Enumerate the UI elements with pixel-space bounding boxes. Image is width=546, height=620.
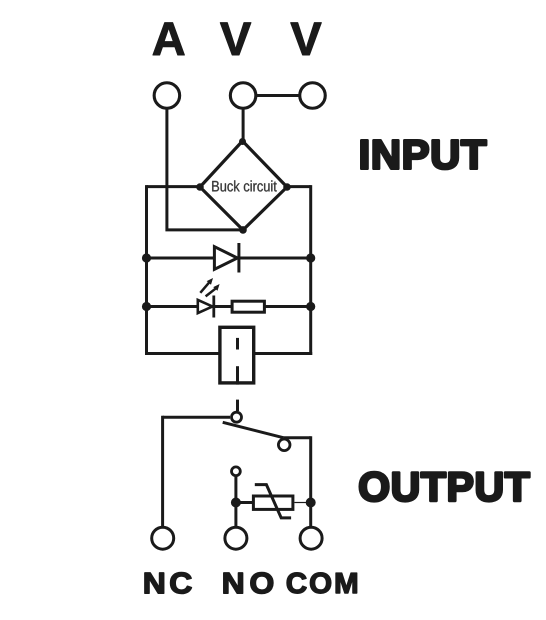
node diode row right [306, 253, 315, 262]
wire right rail vertical [309, 185, 312, 355]
wire blade tip to COM rail [283, 436, 310, 439]
wire coil row left [145, 352, 219, 355]
label A (input terminal A) [153, 23, 185, 55]
node LED row right [306, 302, 315, 311]
wire varistor to COM node (thin) [294, 502, 308, 504]
label NC [145, 573, 191, 594]
label INPUT [361, 140, 486, 169]
label NO [224, 573, 273, 594]
LED D2 triangle [198, 300, 213, 313]
wire diamond left to left rail [147, 185, 201, 188]
varistor RV1 body [253, 496, 293, 509]
LED D2 light arrow 2 [206, 284, 220, 296]
node diamond top [239, 138, 246, 145]
switch moving contact circle [278, 439, 290, 451]
wire diamond right to right rail [287, 185, 311, 188]
wire left rail vertical [145, 185, 148, 355]
node NO-varistor junction [231, 498, 241, 508]
wire from A terminal down and right to diamond bottom [167, 109, 243, 230]
buck converter diamond U1 [200, 141, 287, 230]
diode D1 cathode bar [237, 243, 240, 273]
node diamond left [196, 183, 204, 191]
label V (input terminal V2) [291, 23, 322, 55]
wire NC column vertical [161, 416, 164, 527]
terminal circle COM [300, 527, 322, 549]
switch blade [223, 422, 284, 437]
varistor RV1 diagonal [255, 485, 291, 518]
terminal circle V1 [230, 83, 256, 109]
wire NO node to varistor [236, 501, 252, 504]
node diamond bottom [239, 226, 247, 234]
wire coil row right [255, 352, 313, 355]
LED D2 light arrow 1 [200, 278, 213, 293]
terminal circle NO [225, 527, 247, 549]
label OUTPUT [360, 472, 529, 501]
terminal circle NC [152, 527, 174, 549]
node COM-varistor junction [306, 498, 316, 508]
switch pivot contact circle [232, 412, 242, 422]
label COM [287, 573, 357, 594]
node diamond right [283, 183, 291, 191]
wire LED row [147, 305, 311, 308]
label Buck circuit [212, 180, 277, 191]
diode D1 triangle [214, 247, 237, 270]
relay coil K1 [220, 327, 254, 383]
wire from V1 terminal down to diamond top [242, 109, 245, 142]
terminal circle A [154, 83, 180, 109]
terminal circle V2 [300, 83, 326, 109]
node LED row left [142, 302, 151, 311]
wire NO column vertical [234, 477, 237, 527]
NO fixed contact circle [232, 467, 241, 476]
resistor R1 [232, 301, 264, 312]
relay armature dashed link [236, 338, 239, 411]
label V (input terminal V1) [220, 23, 251, 55]
wire COM rail vertical [309, 436, 312, 526]
wire pivot to NC column [163, 416, 230, 419]
LED D2 cathode bar [212, 296, 215, 318]
node diode row left [142, 253, 151, 262]
wire diode row [147, 257, 311, 260]
wire V1-V2 link [257, 94, 299, 97]
